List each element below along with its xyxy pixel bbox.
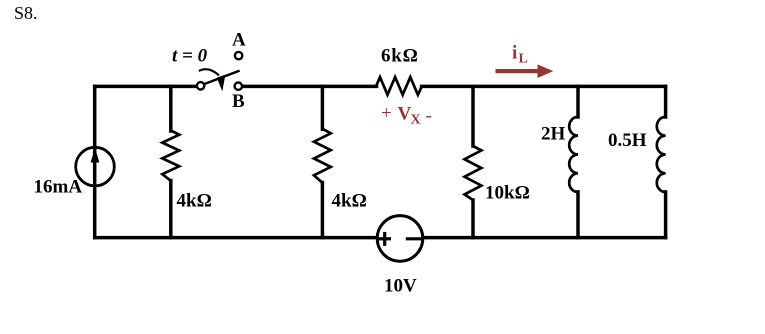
svg-text:16mA: 16mA [34, 177, 83, 198]
svg-text:+: + [381, 103, 392, 124]
svg-text:4kΩ: 4kΩ [177, 191, 212, 212]
svg-text:B: B [232, 91, 245, 112]
svg-text:4kΩ: 4kΩ [332, 191, 367, 212]
svg-text:S8.: S8. [14, 3, 38, 23]
svg-text:t = 0: t = 0 [172, 46, 208, 67]
svg-text:X: X [411, 113, 421, 128]
svg-text:-: - [426, 106, 432, 127]
svg-text:10kΩ: 10kΩ [485, 183, 530, 204]
svg-text:A: A [232, 30, 246, 51]
svg-text:6kΩ: 6kΩ [381, 46, 419, 67]
svg-text:V: V [398, 104, 412, 125]
svg-text:2H: 2H [541, 124, 566, 145]
svg-text:10V: 10V [384, 276, 417, 297]
svg-text:i: i [512, 43, 517, 64]
svg-text:L: L [519, 52, 528, 67]
svg-text:0.5H: 0.5H [608, 130, 647, 151]
